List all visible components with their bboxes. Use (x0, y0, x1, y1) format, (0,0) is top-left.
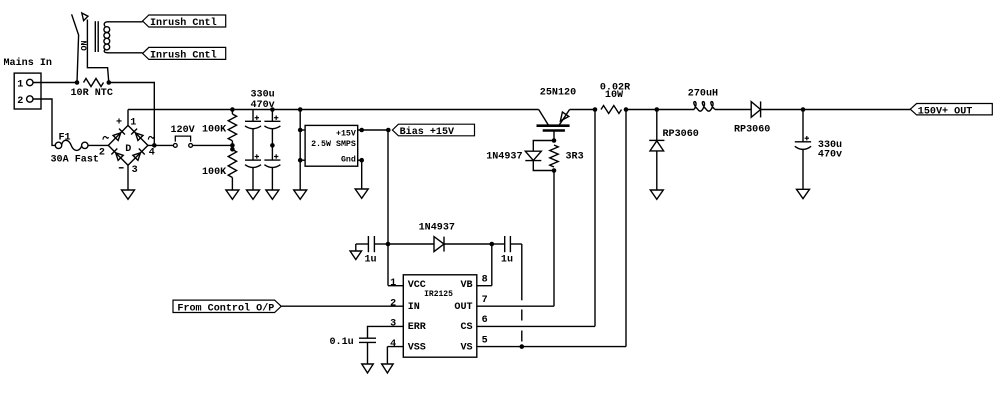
svg-text:10W: 10W (605, 90, 624, 101)
svg-text:5: 5 (482, 335, 488, 346)
wire pin4 VSS (387, 347, 403, 364)
svg-text:470v: 470v (818, 150, 842, 161)
net tag From Control O/P (173, 300, 281, 314)
capacitor C6 1u (492, 236, 522, 266)
relay coil core (95, 21, 98, 52)
ic U1 IR2125 (390, 275, 488, 358)
net tag Inrush Cntl top (143, 15, 226, 29)
wire mains pin1 (33, 82, 77, 84)
svg-text:VSS: VSS (408, 342, 426, 353)
node shunt left junction (593, 107, 598, 112)
node bias junction (386, 128, 391, 133)
ground divider (226, 190, 239, 199)
diode D3 1N4937 gate clamp (486, 141, 554, 171)
wire pin6 CS (477, 110, 595, 327)
node shunt right junction (624, 107, 629, 112)
jumper 120V (171, 125, 196, 147)
svg-text:4: 4 (149, 148, 155, 159)
svg-text:Inrush Cntl: Inrush Cntl (150, 17, 217, 29)
node gate top junction (552, 138, 557, 143)
resistor R5 3R3 (550, 145, 584, 167)
wire bridge minus (127, 165, 129, 190)
wire pin5 VS (477, 110, 626, 347)
wire bridge ac right (148, 144, 173, 146)
capacitor C1 (330u top col1) (245, 110, 261, 161)
node vs junction (520, 344, 525, 349)
svg-text:30A Fast: 30A Fast (51, 155, 99, 166)
capacitor C3 (330u top col2) (264, 110, 280, 146)
wire pin1 VCC (388, 244, 403, 286)
svg-text:+: + (116, 118, 122, 129)
bridge rectifier D (99, 118, 155, 176)
svg-text:ERR: ERR (408, 322, 427, 333)
capacitor C7 0.1u (330, 337, 377, 364)
svg-text:OUT: OUT (454, 302, 472, 313)
wire bootstrap solid (521, 244, 523, 300)
svg-text:10R NTC: 10R NTC (71, 88, 113, 99)
svg-text:1N4937: 1N4937 (486, 151, 522, 162)
capacitor C4 (330u bottom col2) (264, 145, 280, 190)
svg-text:Bias +15V: Bias +15V (400, 126, 455, 138)
svg-text:NO: NO (78, 41, 88, 51)
svg-text:From Control O/P: From Control O/P (177, 303, 274, 315)
wire bridge plus to rail (127, 110, 129, 126)
svg-text:3R3: 3R3 (566, 151, 584, 162)
svg-text:4: 4 (390, 339, 396, 350)
wire jumper to divider (193, 144, 233, 146)
svg-text:2: 2 (17, 96, 23, 107)
svg-text:8: 8 (482, 275, 488, 286)
svg-text:330u: 330u (251, 90, 275, 101)
relay contact NO (72, 13, 109, 83)
net tag Inrush Cntl bottom (143, 47, 226, 61)
node bridge4 junction (152, 143, 157, 148)
svg-text:120V: 120V (171, 125, 196, 136)
capacitor bank labels (251, 90, 275, 112)
node divider mid junction (230, 143, 235, 152)
node smps +15V junction (358, 128, 389, 133)
node vcc junction (386, 242, 391, 247)
diode D5 RP3060 series (734, 101, 770, 135)
node cap col2 mid junction (270, 143, 275, 148)
svg-text:7: 7 (482, 295, 488, 306)
svg-text:1u: 1u (365, 255, 377, 266)
svg-text:Mains In: Mains In (4, 57, 52, 69)
net tag 150V+ OUT (910, 104, 992, 118)
node divider top junction (230, 107, 235, 112)
wire rail inductor to diode (715, 109, 751, 111)
ground C7 (362, 364, 374, 373)
diode D4 RP3060 freewheel (649, 110, 699, 191)
wire rail left (128, 109, 539, 111)
wire mains pin2 (33, 99, 55, 145)
svg-text:Gnd: Gnd (341, 155, 356, 165)
svg-text:6: 6 (482, 315, 488, 326)
inductor L1 270uH (688, 88, 718, 111)
svg-text:VS: VS (460, 342, 472, 353)
capacitor C5 1u (356, 236, 388, 266)
ground C5 (350, 244, 362, 260)
transistor Q1 25N120 (537, 87, 577, 140)
svg-text:3: 3 (132, 165, 138, 176)
resistor 100K lower (202, 145, 237, 190)
capacitor C2 (330u bottom col1) (245, 154, 261, 190)
svg-text:1: 1 (130, 118, 136, 129)
node vb junction (490, 242, 495, 247)
diode D2 1N4937 bootstrap (388, 222, 492, 251)
resistor 10R NTC (71, 79, 113, 100)
smps gnd wire (358, 158, 364, 189)
svg-text:3: 3 (390, 319, 396, 330)
wire bootstrap dashed (521, 310, 523, 342)
wire pin8 VB (477, 244, 492, 286)
smps module U2 2.5W SMPS (298, 125, 358, 166)
ground VSS (382, 364, 394, 373)
ground smps feed (294, 190, 307, 199)
wire rail to out (761, 109, 911, 111)
resistor 100K upper (202, 110, 237, 146)
net tag Bias +15V (392, 124, 474, 138)
svg-text:IN: IN (408, 302, 420, 313)
svg-text:100K: 100K (202, 167, 227, 178)
connector J1 Mains In (4, 57, 52, 109)
ground cap col1 (247, 190, 260, 199)
svg-text:100K: 100K (202, 125, 227, 136)
svg-text:RP3060: RP3060 (663, 129, 699, 140)
wire smps feed (299, 110, 301, 191)
svg-text:CS: CS (460, 322, 472, 333)
node A junction (75, 80, 80, 85)
svg-text:F1: F1 (59, 132, 71, 143)
svg-text:RP3060: RP3060 (734, 125, 770, 136)
wire pin2 IN (281, 305, 403, 307)
svg-text:1N4937: 1N4937 (419, 222, 455, 233)
ground bridge (122, 190, 135, 199)
wire rail emitter (570, 109, 595, 111)
svg-text:270uH: 270uH (688, 88, 718, 99)
node freewheel junction (655, 107, 660, 112)
resistor R4 0.02R 10W (600, 82, 631, 113)
ground freewheel (650, 190, 663, 199)
node B junction (107, 80, 112, 85)
svg-text:2: 2 (390, 298, 396, 309)
svg-text:VB: VB (460, 280, 472, 291)
wire pin7 OUT (477, 171, 554, 307)
svg-text:0.1u: 0.1u (330, 337, 354, 348)
svg-text:IR2125: IR2125 (424, 290, 453, 299)
svg-text:Inrush Cntl: Inrush Cntl (150, 50, 217, 62)
wire rail shunt to diode (626, 109, 694, 111)
svg-text:2.5W SMPS: 2.5W SMPS (311, 140, 356, 149)
svg-text:D: D (125, 144, 131, 155)
capacitor C8 330u output (795, 110, 842, 190)
svg-text:1: 1 (390, 278, 396, 289)
wire pin3 ERR (368, 326, 404, 338)
wire vcc vertical (387, 130, 389, 244)
wire fuse to bridge (88, 144, 108, 146)
svg-text:150V+ OUT: 150V+ OUT (918, 106, 973, 117)
node cap col2 top junction (270, 107, 275, 112)
relay coil (104, 22, 143, 53)
wire NTC to bridge4 (109, 83, 155, 146)
svg-text:+15V: +15V (336, 129, 356, 138)
svg-text:1: 1 (17, 80, 23, 91)
ground output cap (797, 189, 810, 198)
svg-text:25N120: 25N120 (540, 87, 576, 98)
fuse F1 (51, 132, 99, 165)
svg-text:2: 2 (99, 148, 105, 159)
svg-text:1u: 1u (501, 255, 513, 266)
node gate bottom junction (552, 168, 557, 173)
node smps feed junction (298, 107, 303, 112)
ground cap col2 (266, 190, 279, 199)
node out junction (801, 107, 806, 112)
ground smps (355, 189, 368, 198)
